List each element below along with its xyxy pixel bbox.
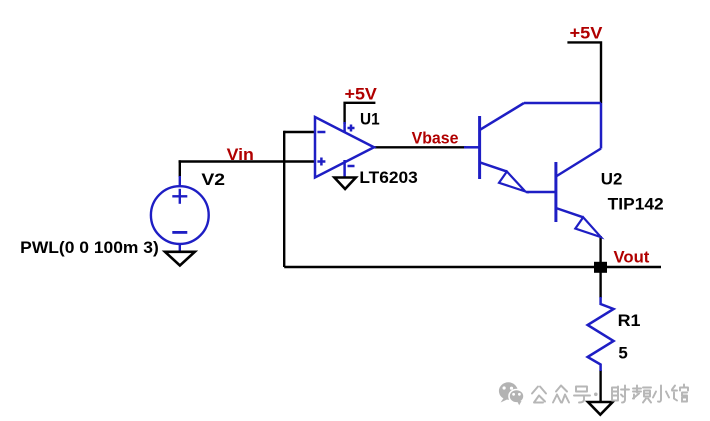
svg-text:Vbase: Vbase [412, 130, 459, 148]
wire blue +5V rail down to Q2 collector [600, 103, 603, 149]
svg-text:+5V: +5V [345, 86, 377, 104]
op-amp U1 [315, 117, 374, 178]
char she [612, 386, 629, 403]
wire +5V rail top right L-shape [567, 42, 601, 103]
wire Q2 emitter to Vout node [599, 236, 601, 267]
ground below V2 [165, 252, 195, 266]
char guan [672, 385, 688, 402]
wire V2 top vertical [179, 160, 181, 177]
resistor R1 [588, 297, 614, 371]
ground below R1 [588, 402, 613, 415]
svg-text:U1: U1 [360, 111, 380, 129]
wire Vout node down to R1 [599, 267, 601, 298]
svg-text:LT6203: LT6203 [359, 169, 417, 187]
transistor Q2 of darlington U2 [556, 149, 601, 238]
svg-text:V2: V2 [201, 171, 225, 189]
wire op-amp V+ supply L-shape [345, 103, 376, 124]
svg-text:+5V: +5V [570, 25, 603, 43]
wire R1 bottom to ground [599, 370, 601, 402]
svg-text:PWL(0 0 100m 3): PWL(0 0 100m 3) [20, 239, 159, 257]
wire Vout node to right stub [600, 266, 661, 268]
ground below op-amp [334, 178, 355, 190]
watermark text gongzhonghao shepin xiaoguan [532, 385, 688, 403]
wire blue Q1 emitter to Q2 base [526, 191, 556, 194]
wire feedback horizontal to inverting input [284, 131, 315, 133]
wire feedback bottom horizontal to Vout node [284, 266, 600, 268]
node Vout junction square [594, 262, 607, 273]
svg-text:Vin: Vin [227, 146, 254, 164]
char pin [633, 386, 651, 403]
transistor Q1 of darlington U2 [464, 103, 525, 191]
char middle dot [594, 393, 598, 397]
char gong [532, 387, 546, 403]
char xiao [653, 386, 669, 402]
svg-text:R1: R1 [618, 312, 641, 330]
wire op-amp output to Q1 base [374, 146, 466, 148]
voltage source V2 [151, 176, 209, 252]
char zhong [553, 386, 569, 403]
svg-text:U2: U2 [601, 171, 623, 189]
wire feedback vertical [283, 131, 285, 267]
wire Vin horizontal from V2 to op-amp + input [179, 160, 315, 162]
watermark wechat icon [499, 382, 524, 405]
svg-text:5: 5 [618, 344, 627, 362]
char hao [574, 387, 590, 403]
svg-text:TIP142: TIP142 [608, 196, 664, 214]
wire blue Q1 collector to +5V rail [524, 102, 601, 105]
svg-text:Vout: Vout [614, 249, 650, 267]
